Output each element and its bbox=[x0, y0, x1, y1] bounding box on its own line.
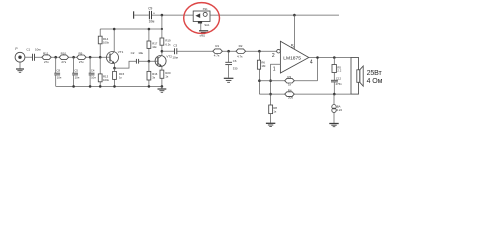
node bus bbox=[89, 85, 92, 88]
node base VT2 bbox=[148, 60, 151, 63]
wire C3 row bbox=[162, 50, 174, 52]
wire coupling VT1-C2 bbox=[115, 61, 137, 68]
svg-text:1: 1 bbox=[273, 66, 276, 72]
resistor R8 (to ground) bbox=[269, 105, 278, 123]
svg-text:2.2: 2.2 bbox=[337, 68, 341, 72]
resistor R9 bbox=[77, 51, 86, 64]
connector XS1 (power box) bbox=[193, 7, 210, 27]
svg-text:C8: C8 bbox=[57, 68, 61, 72]
rail2 wire bbox=[100, 28, 162, 30]
node bus bbox=[148, 85, 151, 88]
node base VT1 bbox=[99, 56, 102, 59]
svg-text:XS1: XS1 bbox=[203, 7, 209, 11]
node bbox=[72, 56, 75, 59]
capacitor C8 (shunt) bbox=[54, 57, 62, 86]
terminal X1 bbox=[133, 11, 135, 18]
wire pin 1 bbox=[271, 64, 281, 105]
capacitor C12 (zobel) bbox=[331, 76, 342, 94]
svg-text:10м: 10м bbox=[149, 20, 155, 24]
svg-text:C4: C4 bbox=[91, 68, 95, 72]
node pin5 junction bbox=[293, 14, 296, 17]
svg-text:10м: 10м bbox=[172, 55, 177, 59]
svg-text:330: 330 bbox=[233, 67, 238, 71]
connector XP1 (input jack) bbox=[15, 47, 25, 62]
ground bus wire bbox=[56, 85, 162, 87]
ground (right) bbox=[329, 124, 338, 127]
node output/R3 bbox=[316, 56, 319, 59]
svg-text:C3: C3 bbox=[173, 43, 177, 47]
svg-text:SA1: SA1 bbox=[204, 23, 210, 27]
wire bbox=[19, 62, 21, 69]
wire bbox=[134, 14, 149, 16]
svg-text:4.7к: 4.7к bbox=[214, 54, 220, 58]
svg-text:1к: 1к bbox=[119, 76, 123, 80]
capacitor C1 bbox=[26, 47, 40, 60]
connector X2 (two circles) bbox=[332, 94, 343, 123]
svg-text:C6: C6 bbox=[233, 59, 237, 63]
node bbox=[54, 56, 57, 59]
wire bbox=[152, 14, 193, 16]
wire bbox=[161, 15, 163, 29]
svg-text:1к: 1к bbox=[165, 75, 169, 79]
resistor R10 bbox=[59, 51, 68, 64]
wire bbox=[211, 14, 340, 16]
resistor R13 (bias lower VT1) bbox=[98, 57, 109, 86]
node R3 row left bbox=[258, 79, 261, 82]
node rail2 collector VT1 bbox=[113, 28, 116, 31]
svg-text:5: 5 bbox=[291, 44, 294, 50]
wire bbox=[35, 56, 107, 58]
capacitor C9 bbox=[148, 7, 155, 24]
op-amp U1 LM1875 bbox=[272, 41, 313, 73]
speaker BA1 bbox=[351, 58, 383, 95]
svg-text:200: 200 bbox=[288, 96, 293, 100]
resistor R15 (emitter VT1) bbox=[113, 68, 125, 86]
resistor R3 (feedback) with row wire bbox=[259, 75, 317, 86]
wire R3 to output bbox=[317, 58, 319, 81]
svg-text:10н: 10н bbox=[57, 75, 62, 79]
svg-text:LM1875: LM1875 bbox=[283, 55, 301, 61]
node collector VT2 bbox=[161, 50, 164, 53]
svg-text:10н: 10н bbox=[75, 75, 80, 79]
svg-text:R3: R3 bbox=[287, 75, 291, 79]
wire bbox=[200, 24, 202, 31]
ground bbox=[16, 69, 24, 72]
transistor VT1 bbox=[107, 29, 124, 68]
svg-text:100к: 100к bbox=[103, 41, 110, 45]
wire output row bbox=[309, 57, 351, 59]
node bbox=[89, 56, 92, 59]
node rail2 R17 bbox=[148, 28, 151, 31]
svg-text:6.2к: 6.2к bbox=[165, 42, 171, 46]
svg-text:10н: 10н bbox=[91, 75, 96, 79]
svg-text:4.7к: 4.7к bbox=[237, 55, 243, 59]
svg-text:27к: 27к bbox=[79, 60, 84, 64]
node bus bbox=[72, 85, 75, 88]
resistor R17 (bias upper VT2) bbox=[147, 29, 158, 61]
resistor R19 (collector VT2) bbox=[160, 29, 171, 51]
svg-text:4 Ом: 4 Ом bbox=[367, 78, 383, 85]
svg-text:27к: 27к bbox=[44, 60, 49, 64]
capacitor C5 (shunt) bbox=[72, 57, 80, 86]
svg-text:27к: 27к bbox=[61, 60, 66, 64]
resistor R11 bbox=[42, 51, 51, 64]
node output/zobel bbox=[333, 56, 336, 59]
resistor R1 bbox=[213, 44, 223, 57]
svg-text:VT2: VT2 bbox=[166, 55, 172, 59]
svg-text:10м: 10м bbox=[35, 47, 40, 51]
svg-text:C12: C12 bbox=[336, 76, 342, 80]
node rail2 right bbox=[161, 28, 163, 30]
ground (C6) bbox=[224, 78, 234, 82]
node emitter VT1 bbox=[113, 67, 116, 70]
resistor R20 (emitter VT2) bbox=[160, 70, 171, 86]
svg-text:R2: R2 bbox=[239, 44, 243, 48]
svg-text:1М: 1М bbox=[261, 64, 266, 68]
resistor R4 row bbox=[259, 88, 351, 99]
transistor VT2 bbox=[155, 51, 172, 70]
capacitor C2 (coupling) bbox=[131, 51, 144, 64]
svg-text:C2: C2 bbox=[131, 51, 135, 55]
resistor R6 (input shunt) bbox=[257, 51, 266, 94]
wire pin 5 bbox=[293, 15, 295, 49]
resistor R14 (bias upper VT1) bbox=[98, 29, 109, 57]
svg-text:1к: 1к bbox=[273, 110, 277, 114]
svg-text:475п: 475п bbox=[336, 82, 343, 86]
resistor R16 (bias lower VT2) bbox=[147, 61, 158, 86]
capacitor C3 (coupling) bbox=[172, 43, 177, 59]
svg-text:2: 2 bbox=[272, 53, 275, 59]
node V+ junction bbox=[161, 14, 164, 17]
svg-text:0.22: 0.22 bbox=[337, 108, 343, 112]
svg-text:25Вт: 25Вт bbox=[367, 70, 383, 77]
svg-text:P: P bbox=[15, 47, 18, 51]
wire bbox=[139, 60, 155, 62]
svg-text:100к: 100к bbox=[103, 78, 110, 82]
wire input row bbox=[25, 56, 32, 58]
node zobel/R4 row bbox=[333, 93, 336, 96]
wire bbox=[177, 50, 277, 52]
node pin1/R4 row bbox=[269, 93, 272, 96]
node A (inverting input) bbox=[258, 50, 261, 53]
svg-text:10к: 10к bbox=[152, 45, 157, 49]
svg-text:R4: R4 bbox=[288, 88, 292, 92]
ground bbox=[199, 31, 208, 38]
node bbox=[227, 50, 230, 53]
ground (R8) bbox=[266, 123, 275, 126]
node bus bbox=[113, 85, 116, 88]
resistor R5 (zobel) bbox=[332, 58, 342, 81]
resistor R2 bbox=[236, 44, 246, 58]
node bus bbox=[161, 85, 164, 88]
node bus bbox=[99, 85, 102, 88]
svg-text:4: 4 bbox=[310, 60, 313, 66]
node pin1/R3 row bbox=[269, 79, 272, 82]
ground (bus) bbox=[158, 86, 167, 92]
svg-text:R1: R1 bbox=[215, 44, 219, 48]
svg-text:C5: C5 bbox=[74, 68, 78, 72]
svg-text:C9: C9 bbox=[148, 7, 152, 11]
svg-text:R10: R10 bbox=[61, 51, 67, 55]
svg-text:R11: R11 bbox=[43, 51, 49, 55]
svg-text:10н: 10н bbox=[138, 51, 143, 55]
capacitor C4 (shunt) bbox=[89, 57, 97, 86]
svg-text:R9: R9 bbox=[79, 51, 83, 55]
svg-text:VT1: VT1 bbox=[118, 50, 124, 54]
highlight circle (red) bbox=[184, 3, 220, 34]
svg-text:общ: общ bbox=[200, 34, 206, 38]
svg-text:C1: C1 bbox=[26, 47, 30, 51]
capacitor C6 (shunt to ground) bbox=[225, 51, 238, 78]
svg-text:3к: 3к bbox=[152, 75, 156, 79]
